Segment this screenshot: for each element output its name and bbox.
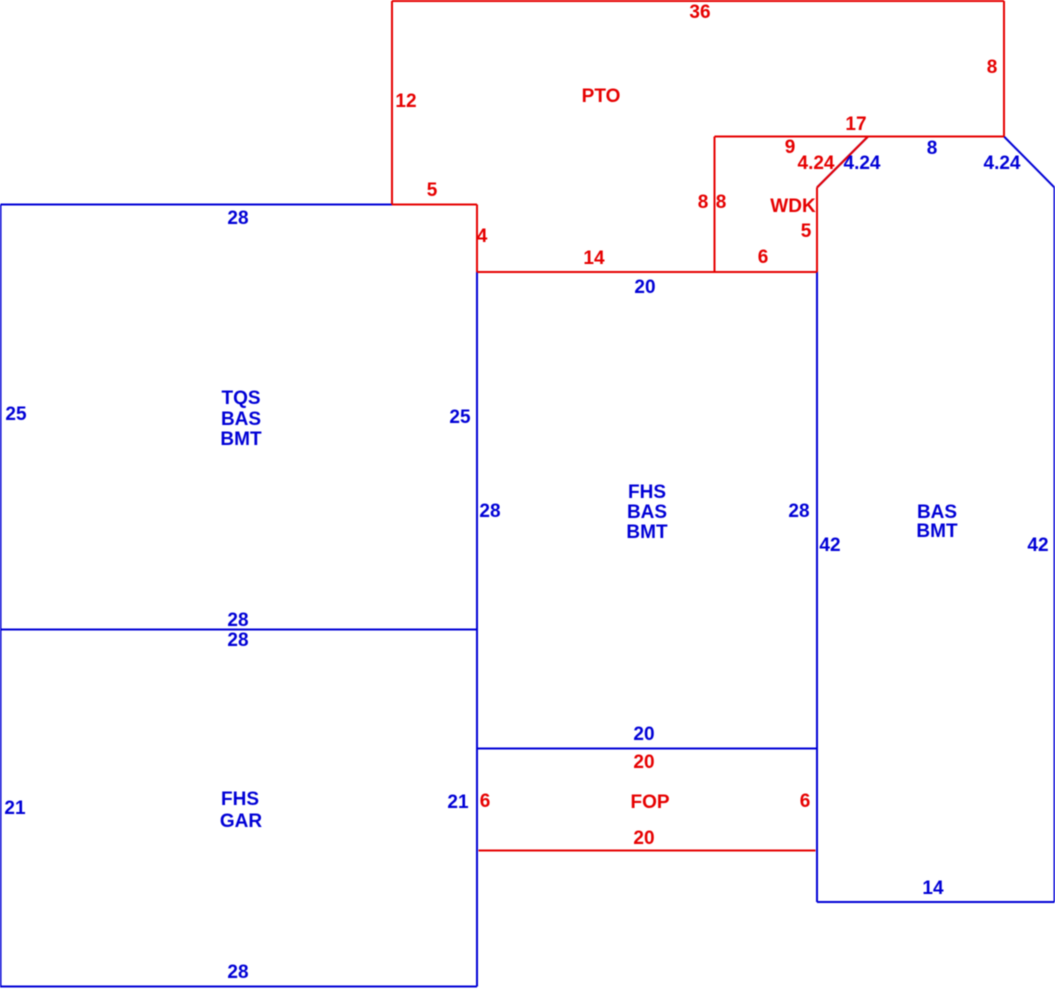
svg-text:8: 8 — [698, 192, 709, 213]
svg-text:28: 28 — [227, 962, 248, 983]
svg-text:17: 17 — [845, 114, 866, 135]
svg-text:BAS: BAS — [917, 502, 957, 523]
svg-text:4.24: 4.24 — [844, 153, 881, 174]
svg-text:28: 28 — [227, 610, 248, 631]
svg-text:FOP: FOP — [630, 792, 669, 813]
svg-text:FHS: FHS — [221, 789, 259, 810]
svg-text:BMT: BMT — [220, 429, 262, 450]
svg-text:20: 20 — [633, 724, 654, 745]
svg-text:6: 6 — [758, 247, 769, 268]
svg-text:4.24: 4.24 — [984, 153, 1021, 174]
svg-text:GAR: GAR — [220, 811, 263, 832]
svg-text:21: 21 — [4, 798, 26, 819]
svg-text:BAS: BAS — [627, 502, 667, 523]
svg-text:8: 8 — [716, 192, 727, 213]
svg-text:PTO: PTO — [582, 86, 621, 107]
svg-text:25: 25 — [5, 404, 27, 425]
svg-text:36: 36 — [689, 2, 710, 23]
svg-text:5: 5 — [427, 180, 438, 201]
svg-text:FHS: FHS — [628, 482, 666, 503]
svg-text:8: 8 — [927, 138, 938, 159]
svg-text:TQS: TQS — [221, 388, 260, 409]
svg-text:12: 12 — [395, 91, 416, 112]
svg-text:6: 6 — [480, 791, 491, 812]
svg-text:20: 20 — [633, 828, 654, 849]
svg-text:BAS: BAS — [221, 409, 261, 430]
svg-text:BMT: BMT — [916, 521, 958, 542]
svg-text:42: 42 — [1027, 535, 1048, 556]
svg-text:8: 8 — [987, 57, 998, 78]
svg-text:21: 21 — [447, 792, 469, 813]
svg-text:28: 28 — [788, 501, 809, 522]
svg-text:20: 20 — [634, 277, 655, 298]
svg-text:6: 6 — [800, 791, 811, 812]
svg-text:42: 42 — [819, 535, 840, 556]
svg-text:28: 28 — [227, 208, 248, 229]
svg-text:9: 9 — [785, 137, 796, 158]
svg-text:4: 4 — [477, 226, 488, 247]
svg-text:WDK: WDK — [770, 196, 816, 217]
svg-text:28: 28 — [479, 501, 500, 522]
svg-text:BMT: BMT — [626, 522, 668, 543]
svg-text:20: 20 — [633, 752, 654, 773]
svg-text:25: 25 — [449, 407, 471, 428]
svg-text:14: 14 — [583, 248, 605, 269]
svg-text:4.24: 4.24 — [798, 153, 835, 174]
svg-text:5: 5 — [801, 221, 812, 242]
svg-text:14: 14 — [922, 878, 944, 899]
svg-text:28: 28 — [227, 630, 248, 651]
